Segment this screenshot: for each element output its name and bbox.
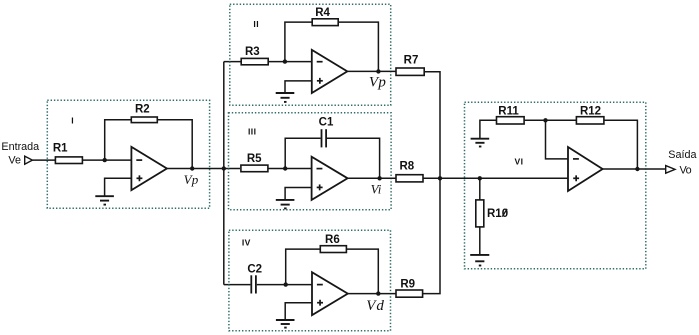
op-amp U4 plus pin xyxy=(317,300,323,306)
svg-text:Vo: Vo xyxy=(679,164,691,176)
svg-text:II: II xyxy=(253,19,259,29)
svg-text:R7: R7 xyxy=(404,55,419,67)
op-amp U1 minus pin xyxy=(136,159,142,161)
node feedback tap stage II xyxy=(283,59,287,63)
resistor R8 xyxy=(396,175,423,182)
op-amp U6 minus pin xyxy=(573,158,579,160)
svg-text:Entrada: Entrada xyxy=(1,141,39,153)
ground stage II xyxy=(276,93,295,102)
enclosure box II xyxy=(230,4,391,105)
svg-text:R2: R2 xyxy=(135,103,150,115)
op-amp U1 plus pin xyxy=(137,175,143,181)
wire feedback left riser stage I xyxy=(105,120,132,160)
ground stage IV xyxy=(276,320,295,328)
wire U4 plus input to ground xyxy=(285,303,312,320)
op-amp U3 plus pin xyxy=(317,184,323,190)
op-amp U2 plus pin xyxy=(317,78,323,84)
wire R4 to output node stage II xyxy=(338,22,378,71)
node stage IV output Vd xyxy=(376,291,380,295)
svg-text:Vd: Vd xyxy=(366,298,385,314)
wire R9 to summing node xyxy=(423,178,440,293)
op-amp U4 minus pin xyxy=(317,284,323,286)
svg-text:Ve: Ve xyxy=(8,154,21,166)
ground stage III xyxy=(276,200,295,209)
svg-text:III: III xyxy=(248,126,256,136)
svg-text:R4: R4 xyxy=(315,7,330,19)
capacitor C2 xyxy=(251,275,256,293)
wire R1 to op-amp U1 inverting input xyxy=(82,159,131,161)
op-amp U2 minus pin xyxy=(317,61,323,63)
resistor R2 xyxy=(131,117,157,123)
op-amp U4 xyxy=(312,272,348,315)
node summing junction xyxy=(438,176,442,180)
wire R10 to ground xyxy=(479,227,481,255)
node R10 tap xyxy=(478,176,482,180)
node feedback tap stage IV xyxy=(284,282,288,286)
svg-text:IV: IV xyxy=(242,237,251,247)
resistor R3 xyxy=(241,58,268,64)
svg-text:I: I xyxy=(71,115,74,125)
op-amp U2 xyxy=(312,50,348,93)
wire vertical input bus xyxy=(223,62,225,285)
wire node to R10 xyxy=(479,178,481,200)
op-amp U1 xyxy=(131,147,167,190)
label R10 zero slash xyxy=(502,209,507,217)
op-amp U6 plus pin xyxy=(573,175,579,181)
wire C1 to output node stage III xyxy=(327,138,380,178)
wire Ve to R1 xyxy=(32,159,55,161)
node stage III output Vi xyxy=(377,176,381,180)
ground R10 xyxy=(470,255,489,266)
wire R6 to output node stage IV xyxy=(346,249,378,294)
op-amp U3 xyxy=(312,157,348,200)
wire R7 to summing node xyxy=(424,72,440,179)
capacitor C1 xyxy=(322,129,327,147)
node R2 to output xyxy=(190,166,194,170)
svg-text:R10: R10 xyxy=(487,208,508,220)
wire feedback left riser stage IV xyxy=(286,249,321,285)
enclosure box III xyxy=(229,113,392,210)
resistor R11 xyxy=(497,117,525,124)
svg-text:Vp: Vp xyxy=(369,75,386,91)
wire U6 output to output terminal xyxy=(603,168,666,170)
enclosure box I xyxy=(47,100,209,208)
svg-text:R9: R9 xyxy=(400,278,415,290)
wire R8 to op-amp U6 plus input xyxy=(423,177,568,179)
wire U4 output to R9 xyxy=(348,293,396,295)
resistor R12 xyxy=(576,117,604,124)
resistor R7 xyxy=(396,68,424,75)
svg-text:Vi: Vi xyxy=(371,181,382,196)
resistor R9 xyxy=(396,290,423,297)
enclosure box VI xyxy=(465,102,646,269)
input terminal Ve xyxy=(25,156,33,164)
enclosure box IV xyxy=(229,230,391,331)
wire C2 to op-amp U4 inverting input xyxy=(257,284,312,286)
wire junction to U6 minus input xyxy=(546,120,569,159)
wire R3 to op-amp U2 inverting input xyxy=(268,61,312,63)
node stage II output Vp xyxy=(376,69,380,73)
node Vp bus junction xyxy=(222,166,226,170)
node R12 feedback to output xyxy=(635,167,639,171)
wire R2 to output node stage I xyxy=(157,120,192,169)
node feedback tap stage III xyxy=(283,166,287,170)
node R11 R12 junction xyxy=(543,118,547,122)
wire U3 plus input to ground xyxy=(285,188,312,200)
resistor R1 xyxy=(55,157,82,164)
svg-text:R6: R6 xyxy=(325,234,340,246)
wire ground to R11 xyxy=(480,120,497,138)
svg-text:Saída: Saída xyxy=(668,149,696,161)
ground R11 xyxy=(471,139,490,147)
svg-text:R5: R5 xyxy=(247,153,262,165)
wire U2 plus input to ground xyxy=(285,81,312,93)
wire R5 to op-amp U3 inverting input xyxy=(268,168,312,170)
wire U1 output to input bus xyxy=(167,168,240,170)
svg-text:VI: VI xyxy=(514,157,523,167)
resistor R10 xyxy=(476,200,484,227)
wire U3 output to R8 xyxy=(348,177,396,179)
resistor R4 xyxy=(312,19,338,26)
wire R12 to output node xyxy=(604,120,638,169)
wire U2 output to R7 xyxy=(347,70,396,72)
wire R11 to R12 xyxy=(524,119,576,121)
svg-text:R1: R1 xyxy=(53,143,68,155)
op-amp U3 minus pin xyxy=(317,168,323,170)
wire feedback left riser stage III xyxy=(285,138,320,168)
svg-text:R11: R11 xyxy=(498,106,519,118)
svg-text:R3: R3 xyxy=(245,46,260,58)
output terminal Vo xyxy=(666,166,675,174)
wire feedback left riser stage II xyxy=(285,22,312,62)
svg-text:Vp: Vp xyxy=(184,172,199,187)
wire U1 plus input to ground xyxy=(105,178,132,196)
ground stage I xyxy=(95,196,114,204)
svg-text:R12: R12 xyxy=(580,106,601,118)
svg-text:R8: R8 xyxy=(399,160,414,172)
wire bus to C2 xyxy=(224,284,251,286)
resistor R6 xyxy=(320,246,346,253)
svg-text:C2: C2 xyxy=(247,263,262,275)
svg-text:C1: C1 xyxy=(319,116,334,128)
resistor R5 xyxy=(241,165,268,172)
op-amp U6 xyxy=(568,147,603,191)
node feedback tap stage I xyxy=(103,158,107,162)
wire bus to R3 xyxy=(224,61,241,63)
